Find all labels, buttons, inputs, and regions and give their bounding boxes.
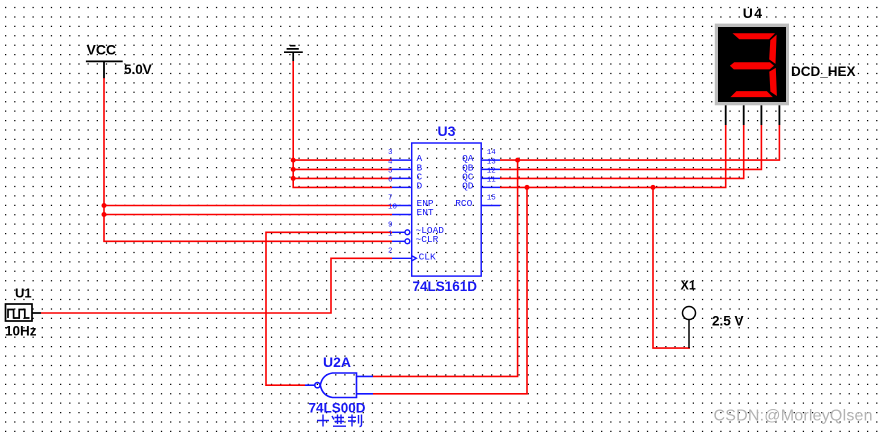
svg-text:ENT: ENT [417,207,434,218]
svg-text:DCD_HEX: DCD_HEX [791,64,856,79]
svg-text:74LS00D: 74LS00D [309,401,366,416]
pin stub C [392,177,412,179]
svg-text:~CLR: ~CLR [416,234,439,245]
wire U1 to CLK [41,258,392,313]
svg-text:15: 15 [487,195,497,203]
junction GND-A [291,158,296,163]
pin stub U2A input bottom [356,393,373,395]
junction VCC-ENT [102,212,107,217]
wire VCC vertical to ~CLR [104,78,392,241]
svg-text:3: 3 [388,149,393,157]
ground [284,46,303,62]
wire QD to X1 [653,187,690,348]
svg-text:2.5 V: 2.5 V [712,314,744,329]
segment c (lower right) [769,68,777,96]
svg-text:10: 10 [388,204,398,212]
pin stub QD [481,186,500,188]
svg-text:12: 12 [487,167,496,175]
junction GND-C [291,176,296,181]
junction QA-U2A [515,158,520,163]
svg-text:X1: X1 [681,279,696,293]
junction VCC-ENP [102,203,107,208]
pin stub QC [481,177,500,179]
svg-text:CSDN:@MorleyQlsen: CSDN:@MorleyQlsen [714,408,873,425]
svg-text:RCO: RCO [455,198,472,209]
segment a (top) [733,33,776,39]
svg-text:5.0V: 5.0V [124,62,152,77]
wire QD net [500,125,726,187]
power VCC [86,61,123,78]
wire ENP [104,205,392,207]
wire B [293,168,392,170]
svg-text:4: 4 [388,158,393,166]
NAND gate U2A 74LS00D (mirrored) [305,373,373,398]
svg-text:6: 6 [388,176,393,184]
junction GND-B [291,167,296,172]
pin stub B [392,168,412,170]
junction QD-X1 [651,185,656,190]
svg-text:U2A: U2A [323,354,351,370]
display body [715,24,789,106]
pin stub ENP [392,205,412,207]
pin stub ~CLR with bubble [392,240,405,242]
pin stub ENT [392,214,412,216]
svg-text:U3: U3 [438,123,456,139]
IC U3 74LS161D [392,143,500,276]
wire U2A output to ~LOAD [266,232,392,385]
svg-text:14: 14 [487,149,497,157]
svg-text:74LS161D: 74LS161D [413,279,478,294]
label shi-jin-zhi (decimal) [317,415,362,427]
pin stub ~LOAD with bubble [392,231,405,233]
pin stub QA [481,159,500,161]
wire QA net [500,125,779,160]
pin stub RCO [481,205,500,207]
svg-text:VCC: VCC [87,42,117,58]
pin stub CLK with wedge [392,257,412,259]
svg-text:9: 9 [388,221,393,229]
pin stub U2A output [305,384,315,386]
pin stub D [392,186,412,188]
probe X1 [683,307,696,349]
svg-text:10Hz: 10Hz [5,324,37,339]
clock source U1 [6,304,42,321]
svg-text:2: 2 [388,247,393,255]
display pins [726,105,780,125]
bubble U2A output [315,383,320,388]
svg-text:7: 7 [388,195,393,203]
svg-text:U4: U4 [743,5,764,21]
wire C [293,177,392,179]
svg-text:1: 1 [388,230,393,238]
wire QB net [500,125,761,169]
svg-text:D: D [417,180,423,191]
wire QC net [500,125,744,178]
svg-text:13: 13 [487,158,497,166]
segment g (middle) [730,62,774,69]
pin stub U2A input top [356,375,373,377]
wire A [293,159,392,161]
segment d (bottom) [730,91,772,97]
segment b (upper right) [769,35,776,64]
svg-text:5: 5 [388,167,393,175]
svg-text:11: 11 [487,176,497,184]
svg-text:CLK: CLK [419,251,436,262]
pin stub A [392,159,412,161]
junction QD-U2A [525,185,530,190]
pin stub QB [481,168,500,170]
wire GND vertical to D [293,61,392,187]
wire ENT [104,214,392,216]
svg-text:U1: U1 [15,286,32,301]
svg-text:QD: QD [462,180,474,191]
